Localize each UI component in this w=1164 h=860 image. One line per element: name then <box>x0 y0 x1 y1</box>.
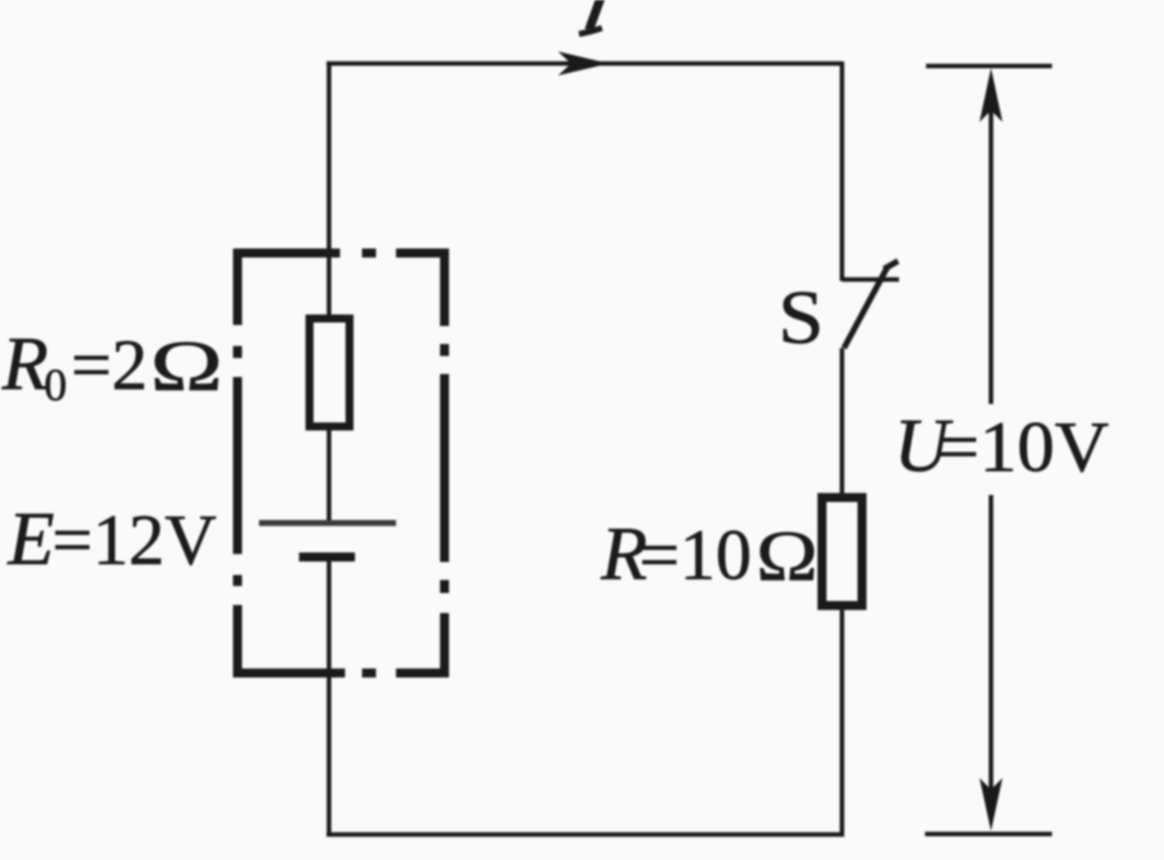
battery internal dash-dot box <box>238 253 445 673</box>
svg-text:Ω: Ω <box>756 516 818 596</box>
switch S blade <box>844 266 888 348</box>
svg-text:S: S <box>778 276 824 360</box>
svg-text:=2: =2 <box>71 325 148 405</box>
dimension tick bottom <box>925 832 1052 837</box>
dimension tick top <box>926 64 1052 69</box>
wire: switch top stub <box>842 277 899 282</box>
dimension arrowhead up <box>980 68 1003 122</box>
wire: left vertical upper (top corner to resistor R0) <box>327 62 332 318</box>
svg-text:R: R <box>1 322 48 406</box>
wire: bottom horizontal <box>327 832 845 837</box>
svg-text:=10V: =10V <box>937 407 1109 487</box>
resistor R0 <box>310 319 350 427</box>
wire: left vertical between R0 and battery plus plate <box>327 428 332 524</box>
dimension arrow shaft upper <box>989 100 994 404</box>
wire: right vertical upper (top corner to switch) <box>840 62 845 282</box>
wire: right vertical lower (resistor R to bottom corner) <box>840 606 845 837</box>
wire: top horizontal <box>327 61 843 66</box>
label I: bottom serif <box>579 28 602 34</box>
svg-text:=10: =10 <box>639 515 752 595</box>
current arrow I on top wire <box>558 52 609 76</box>
svg-text:0: 0 <box>44 359 67 410</box>
label I (cut off at top): stem <box>589 0 601 30</box>
svg-text:Ω: Ω <box>150 326 223 406</box>
svg-text:=12V: =12V <box>52 500 217 580</box>
wire: left vertical from battery minus plate to bottom corner <box>327 558 332 837</box>
battery E: long positive plate <box>259 520 396 526</box>
svg-text:E: E <box>7 497 54 581</box>
dimension arrowhead down <box>980 778 1003 831</box>
battery E: short negative plate <box>299 553 355 562</box>
resistor R <box>822 498 862 606</box>
switch S tip hook <box>884 261 898 269</box>
wire: right vertical between switch and resistor R <box>840 348 845 497</box>
dimension arrow shaft lower <box>989 495 994 800</box>
